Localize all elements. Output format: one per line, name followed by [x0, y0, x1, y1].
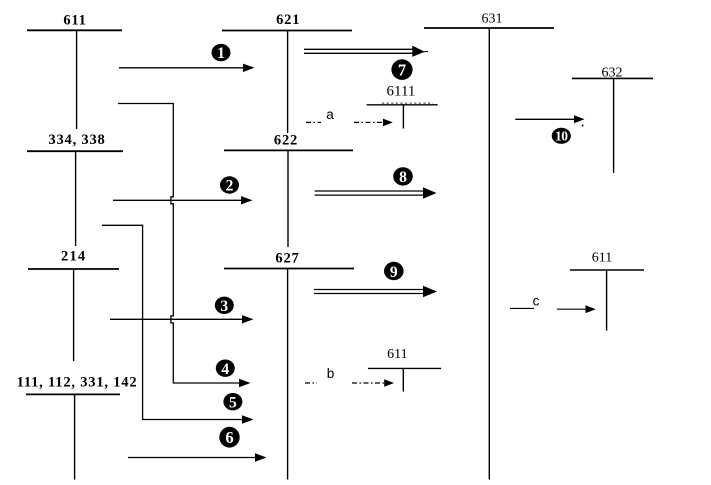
- double arrow 8: [315, 187, 437, 198]
- svg-text:6111: 6111: [387, 84, 416, 100]
- bus 334,338: [27, 151, 123, 246]
- bus 214: [28, 269, 119, 361]
- svg-text:9: 9: [390, 264, 398, 281]
- arrow c: [510, 305, 596, 313]
- arrow 4 elbow with hops: [118, 104, 251, 388]
- circled 4: [216, 360, 235, 378]
- svg-text:5: 5: [229, 394, 237, 411]
- bus 632: [572, 78, 653, 173]
- svg-text:622: 622: [274, 133, 298, 149]
- svg-text:611: 611: [592, 250, 612, 265]
- svg-text:c: c: [533, 294, 540, 309]
- svg-text:8: 8: [399, 169, 407, 186]
- bus 631: [424, 28, 554, 480]
- svg-text:632: 632: [602, 66, 623, 81]
- dash-dot arrow b: [305, 379, 394, 387]
- circled 3: [215, 297, 234, 315]
- svg-text:214: 214: [61, 249, 86, 265]
- svg-text:a: a: [326, 107, 334, 122]
- double arrow 7: [304, 46, 428, 57]
- circled 10: [552, 128, 571, 144]
- bus 611 target-b: [368, 368, 441, 391]
- dash-dot arrow a: [306, 119, 393, 127]
- arrow 10: [515, 115, 584, 126]
- svg-text:111, 112, 331, 142: 111, 112, 331, 142: [17, 375, 138, 391]
- svg-text:611: 611: [63, 13, 86, 29]
- svg-text:10: 10: [555, 129, 568, 144]
- svg-text:6: 6: [225, 428, 233, 447]
- svg-text:334, 338: 334, 338: [48, 132, 105, 148]
- svg-text:7: 7: [398, 61, 406, 80]
- circled 7: [391, 59, 412, 80]
- bus 111,112,331,142: [26, 394, 120, 479]
- svg-text:627: 627: [275, 251, 299, 267]
- circled 8: [393, 167, 413, 186]
- svg-text:b: b: [327, 366, 335, 381]
- circled 6: [219, 427, 239, 448]
- double arrow 9: [314, 286, 437, 297]
- bus 621: [222, 31, 352, 134]
- bus 611 target-c: [570, 270, 644, 331]
- bus 627: [224, 269, 354, 480]
- svg-text:4: 4: [221, 361, 229, 378]
- bus 6111: [367, 103, 438, 128]
- arrow 3: [110, 315, 254, 323]
- circled 5: [223, 393, 242, 411]
- bus 611 top-left: [27, 30, 122, 129]
- svg-text:3: 3: [220, 298, 228, 315]
- svg-text:621: 621: [276, 12, 300, 28]
- svg-text:611: 611: [387, 347, 407, 362]
- arrow 1: [119, 64, 255, 72]
- bus 622: [224, 150, 353, 247]
- svg-text:2: 2: [226, 178, 234, 195]
- arrow 5 elbow: [102, 225, 254, 423]
- circled 9: [384, 262, 404, 281]
- circled 2: [220, 176, 239, 194]
- arrow 6: [128, 453, 267, 461]
- svg-text:631: 631: [482, 12, 503, 27]
- arrow 2: [113, 196, 253, 204]
- svg-text:1: 1: [217, 45, 225, 62]
- circled 1: [212, 44, 231, 62]
